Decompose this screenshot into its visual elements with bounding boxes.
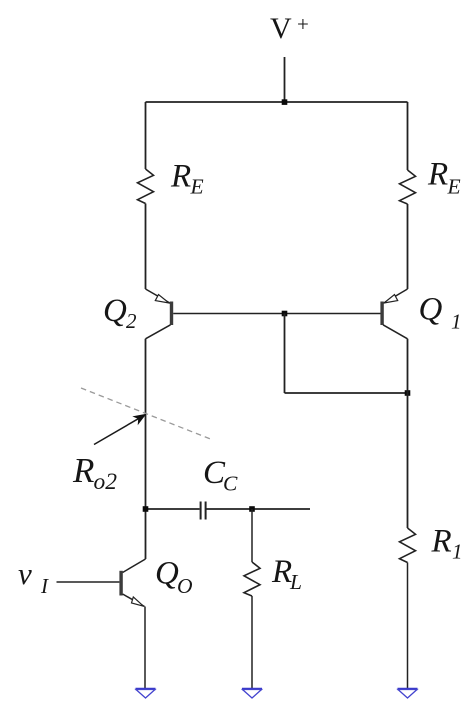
wire base rail Q2-Q1 bbox=[173, 313, 380, 315]
svg-text:I: I bbox=[40, 574, 49, 598]
ground (left) bbox=[136, 689, 156, 698]
svg-text:E: E bbox=[447, 175, 461, 199]
arrow pointer to Ro2 bbox=[94, 414, 147, 445]
svg-text:1: 1 bbox=[451, 309, 462, 333]
wire feedback horizontal bbox=[285, 392, 408, 394]
svg-text:L: L bbox=[289, 570, 302, 594]
wire top rail bbox=[146, 101, 408, 103]
label RE (right) bbox=[427, 157, 461, 199]
dashed line through Ro2 bbox=[81, 388, 213, 440]
wire left branch lower (Q2 collector to QO collector) bbox=[145, 339, 147, 559]
node collector junction bbox=[405, 390, 411, 396]
wire CC right segment bbox=[207, 508, 311, 510]
wire vI base lead bbox=[57, 581, 120, 583]
svg-text:+: + bbox=[297, 12, 309, 36]
node CC left junction bbox=[143, 506, 149, 512]
wire RL to ground bbox=[251, 596, 253, 689]
wire left branch upper bbox=[145, 102, 147, 169]
svg-text:Q: Q bbox=[155, 556, 179, 592]
label Q1 bbox=[419, 292, 462, 334]
svg-text:R: R bbox=[431, 524, 452, 560]
transistor Q2 bbox=[146, 289, 174, 339]
wire left branch to Q2 emitter bbox=[145, 204, 147, 290]
label Ro2 bbox=[72, 451, 117, 495]
node base junction bbox=[282, 311, 288, 317]
label QO bbox=[155, 556, 193, 599]
svg-text:E: E bbox=[190, 175, 204, 199]
svg-text:Q: Q bbox=[419, 292, 443, 328]
wire QO emitter to ground bbox=[144, 607, 146, 690]
svg-text:V: V bbox=[270, 12, 292, 45]
wire RL upper bbox=[251, 509, 253, 562]
label R1 bbox=[431, 524, 463, 564]
resistor RE (right) bbox=[400, 170, 416, 204]
node RL junction bbox=[249, 506, 255, 512]
svg-text:1: 1 bbox=[452, 540, 463, 564]
svg-text:C: C bbox=[223, 471, 238, 495]
svg-text:v: v bbox=[18, 556, 32, 591]
svg-text:R: R bbox=[271, 554, 292, 590]
svg-text:O: O bbox=[177, 574, 193, 598]
wire CC left segment bbox=[146, 508, 200, 510]
wire right branch lower bbox=[407, 339, 409, 528]
label Q2 bbox=[103, 293, 137, 333]
svg-text:2: 2 bbox=[126, 309, 137, 333]
ground (middle) bbox=[242, 689, 262, 698]
label RE (left) bbox=[170, 159, 204, 199]
label vI bbox=[18, 556, 49, 598]
capacitor CC bbox=[201, 502, 206, 520]
label RL bbox=[271, 554, 302, 594]
resistor R1 bbox=[400, 528, 416, 563]
resistor RL bbox=[244, 562, 260, 596]
node V+ junction bbox=[282, 99, 288, 105]
label CC bbox=[203, 455, 238, 495]
wire right branch to Q1 emitter bbox=[407, 204, 409, 289]
power label V+ bbox=[270, 12, 309, 45]
wire right branch upper bbox=[407, 102, 409, 170]
svg-text:o2: o2 bbox=[94, 469, 118, 495]
svg-text:R: R bbox=[72, 451, 94, 490]
wire right branch to ground bbox=[407, 563, 409, 690]
svg-text:R: R bbox=[427, 157, 448, 193]
svg-text:R: R bbox=[170, 159, 191, 195]
wire V+ lead bbox=[284, 57, 286, 102]
ground (right) bbox=[398, 689, 418, 698]
svg-text:Q: Q bbox=[103, 293, 127, 329]
resistor RE (left) bbox=[138, 169, 154, 204]
transistor Q1 bbox=[380, 289, 407, 339]
wire feedback vertical bbox=[284, 314, 286, 394]
transistor QO bbox=[119, 559, 145, 607]
